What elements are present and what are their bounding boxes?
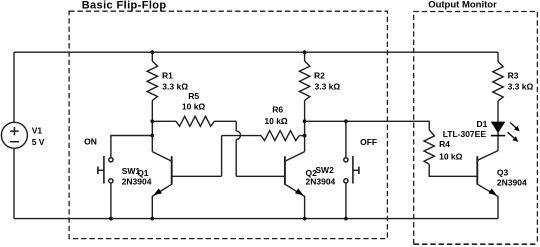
svg-text:R1: R1	[162, 71, 173, 81]
svg-text:LTL-307EE: LTL-307EE	[443, 129, 487, 139]
svg-text:R4: R4	[439, 139, 450, 149]
svg-text:5 V: 5 V	[32, 137, 45, 147]
svg-text:Q3: Q3	[497, 168, 509, 178]
svg-text:10 kΩ: 10 kΩ	[439, 151, 463, 161]
svg-text:OFF: OFF	[360, 137, 377, 147]
svg-text:D1: D1	[477, 119, 488, 129]
svg-text:V1: V1	[32, 125, 43, 135]
svg-text:R6: R6	[272, 105, 283, 115]
svg-text:2N3904: 2N3904	[306, 176, 336, 186]
svg-text:3.3 kΩ: 3.3 kΩ	[508, 81, 534, 91]
svg-text:ON: ON	[84, 137, 97, 147]
svg-text:3.3 kΩ: 3.3 kΩ	[315, 81, 341, 91]
svg-text:3.3 kΩ: 3.3 kΩ	[162, 81, 188, 91]
svg-text:10 kΩ: 10 kΩ	[264, 116, 288, 126]
svg-text:2N3904: 2N3904	[122, 176, 152, 186]
svg-text:SW2: SW2	[315, 165, 334, 175]
svg-text:Output Monitor: Output Monitor	[428, 0, 497, 10]
svg-text:R5: R5	[188, 91, 199, 101]
svg-text:Basic Flip-Flop: Basic Flip-Flop	[82, 0, 167, 11]
svg-text:2N3904: 2N3904	[497, 178, 527, 188]
svg-text:R2: R2	[314, 71, 325, 81]
svg-text:10 kΩ: 10 kΩ	[182, 102, 206, 112]
svg-text:R3: R3	[508, 71, 519, 81]
